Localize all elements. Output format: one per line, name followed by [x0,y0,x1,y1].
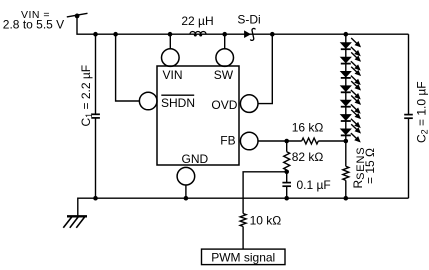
svg-text:S-Di: S-Di [237,13,260,27]
wire 10k to PWM box [242,227,244,250]
svg-text:22 µH: 22 µH [181,14,213,28]
capacitor 0.1 uF plates [282,183,291,187]
pin GND circle [177,167,195,185]
pin SHDN circle [139,92,157,110]
node SW pin junction [222,32,227,37]
pin FB circle [240,132,258,150]
node FB junction [284,139,289,144]
node OVD junction [270,32,275,37]
node 82k/0.1uF/10k junction [284,170,289,175]
wire 16k right lead [318,140,346,142]
wire VIN pin stub [169,34,171,49]
wire LED string [345,34,347,141]
label RSENS = 15 Ohm [351,147,377,189]
pin SW circle [216,49,234,67]
label VIN source [3,9,64,32]
resistor RSENS zigzag [343,166,349,180]
pin label SHDN (with overbar) [161,95,195,110]
wire GND pin to rail [185,185,187,198]
svg-text:82 kΩ: 82 kΩ [292,150,324,164]
wire C1 branch lower [95,118,97,198]
LED D3 [341,67,360,84]
node LED bottom junction [344,139,349,144]
LED D7 [341,124,360,141]
LED D5 [341,96,360,113]
wire SHDN tie-high branch [116,34,140,101]
resistor 16 kOhm zigzag [302,138,319,144]
node C1 bottom junction [93,196,98,201]
svg-text:SW: SW [214,68,234,82]
svg-text:OVD: OVD [211,98,237,112]
wire right rail bottom (from C2) [408,118,410,198]
wire RSENS top lead [345,141,347,166]
wire bottom ground rail [78,198,409,216]
svg-text:VIN: VIN [163,68,183,82]
svg-text:PWM signal: PWM signal [211,251,275,265]
svg-text:= 15 Ω: = 15 Ω [363,148,377,184]
inductor L 22 uH coil [190,31,206,34]
wire 82k to 0.1uF node [286,170,288,182]
pin VIN circle [162,49,180,67]
wire right rail top (to C2) [408,34,410,114]
wire OVD branch [258,34,272,103]
node VIN pin junction [168,32,173,37]
wire FB to node [258,140,302,142]
resistor 82 kOhm top lead [286,141,288,152]
IC U1 box [157,66,239,165]
svg-text:SHDN: SHDN [161,96,195,110]
ground symbol [67,215,87,217]
node 0.1uF bottom junction [284,196,289,201]
wire RSENS bottom lead [345,180,347,198]
svg-text:FB: FB [220,133,235,147]
wire 0.1uF bottom lead [286,187,288,199]
LED D2 [341,52,360,69]
node VIN terminal dot [75,14,80,19]
svg-text:10 kΩ: 10 kΩ [250,214,282,228]
resistor 82 kOhm zigzag [284,152,290,170]
node LED top junction [344,32,349,37]
LED D4 [341,81,360,98]
node GND pin junction [184,196,189,201]
capacitor C1 plates [91,114,100,118]
svg-text:16 kΩ: 16 kΩ [292,121,324,135]
PWM signal box [202,249,286,265]
wire SW pin stub [224,34,226,49]
wire top rail [77,16,409,34]
node RSENS bottom junction [344,196,349,201]
wire C1 branch upper [95,34,97,114]
wire PWM branch [243,172,287,214]
terminal VIN tick [67,13,88,17]
node SHDN branch junction [113,32,118,37]
LED D6 [341,110,360,127]
capacitor C2 plates [404,115,413,119]
LED D1 [341,38,360,55]
diode S-Di [244,28,255,40]
node C1 top junction [93,32,98,37]
svg-text:GND: GND [182,152,209,166]
svg-text:2.8 to 5.5 V: 2.8 to 5.5 V [3,18,64,32]
resistor 10 kOhm zigzag [240,214,246,227]
pin OVD circle [240,95,258,113]
svg-text:0.1 µF: 0.1 µF [297,178,331,192]
